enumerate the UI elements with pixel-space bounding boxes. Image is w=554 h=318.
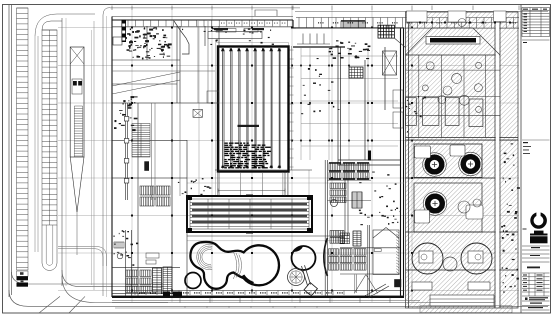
box with X room	[193, 109, 202, 117]
stair with X	[383, 51, 397, 75]
slide	[304, 283, 317, 296]
basement ramp shaft	[70, 47, 84, 157]
bench above pool	[208, 32, 262, 39]
NE waffle block	[378, 25, 394, 38]
plant bay walls	[406, 55, 501, 138]
lazy river arc wall	[324, 238, 328, 276]
filter room panels	[415, 145, 484, 223]
secondary floor lines east hall	[301, 48, 398, 160]
east wing partitions	[338, 47, 400, 165]
west corridor wall pair with column boxes	[124, 103, 126, 200]
column grid lines	[58, 10, 519, 302]
waffle block SC	[340, 233, 349, 244]
ramp door fixtures	[72, 79, 82, 94]
pool hall aisle lines	[199, 27, 309, 196]
small rooms east of stair	[393, 90, 403, 108]
top dimension ticks	[112, 6, 519, 11]
deck lines above leisure pool	[187, 240, 345, 242]
spa pool circle	[292, 246, 316, 270]
south window cell band	[112, 291, 404, 296]
rooftop dark bar	[426, 37, 480, 45]
lockers right of wall	[330, 231, 344, 237]
NW room boxes	[207, 91, 219, 103]
title block lower rows	[522, 246, 550, 310]
south hatched apron of plant	[420, 306, 512, 313]
competition pool basin	[218, 47, 289, 172]
firm logo laurel wreath emblem	[523, 212, 548, 244]
parking row west strip 1	[17, 8, 29, 270]
rooftop units white boxes	[407, 11, 507, 22]
locker banks NE	[329, 163, 341, 171]
filter room boxes	[414, 144, 482, 178]
locker banks mid	[330, 183, 346, 189]
bottom road double line and curb cells	[115, 307, 420, 309]
NW interior extra walls	[112, 21, 215, 103]
west perimeter road edges	[8, 5, 10, 297]
dark grid box gym	[349, 67, 363, 78]
dark crescent bottom of big circle	[243, 275, 254, 283]
mid-south wall pair	[324, 160, 326, 297]
lobby scatter	[182, 28, 274, 45]
south main wall thick	[112, 296, 404, 298]
SE entrance vestibule diagonals	[354, 275, 366, 294]
drop-off loop	[58, 247, 107, 267]
teaching pool basin	[187, 196, 312, 232]
filter tanks (donuts)	[427, 157, 442, 172]
column markers at grid intersections	[131, 27, 413, 292]
north sidewalk edge	[110, 7, 300, 9]
dimension line above lap pool	[218, 190, 285, 192]
north band rooms (west part)	[112, 17, 293, 27]
accessible stalls black	[17, 276, 29, 280]
SE entrance diagonals	[365, 284, 386, 296]
rooftop circles	[426, 62, 434, 70]
beach entry contour arcs	[197, 244, 242, 279]
deck lines below competition pool	[218, 172, 288, 196]
water wheel feature	[288, 269, 305, 286]
west staircase	[132, 124, 150, 158]
entry zigzag wall	[174, 21, 189, 54]
plant south steps	[412, 282, 494, 306]
west block partitions	[112, 26, 400, 297]
strip2 U-turn loop	[42, 225, 57, 271]
SW walls	[125, 230, 127, 297]
plant zone walls	[406, 12, 519, 308]
south-central locker rows	[340, 249, 352, 255]
strip2 approach arcs	[42, 21, 62, 30]
plant roof ridge	[406, 28, 433, 55]
pool centre label	[238, 125, 260, 127]
parking row west strip 2	[42, 30, 57, 225]
title block revision table	[522, 8, 550, 37]
dense equipment speckles	[126, 27, 172, 59]
pool annotation text blocks	[225, 143, 253, 169]
SW dense locker cluster	[126, 270, 138, 277]
gym north wall	[293, 46, 345, 48]
natatorium outer walls	[112, 17, 404, 298]
ramp diagonals hall	[112, 72, 180, 86]
ramp stair treads	[74, 106, 82, 157]
corner lane diagonals	[39, 296, 60, 313]
west mid wall lines	[151, 103, 153, 200]
SE big room with canopy	[373, 228, 399, 275]
south pavement lines	[112, 299, 420, 301]
SE room hatch column	[396, 231, 399, 274]
canopy top centre	[255, 10, 277, 16]
ramp V taper	[70, 157, 77, 212]
band dark comb mid	[341, 21, 365, 28]
white corridor strip	[496, 13, 500, 308]
leisure pool freeform basin	[190, 242, 279, 289]
surge tank circles	[412, 243, 443, 274]
SW locker / toilet combs	[140, 186, 154, 195]
west wall black segment	[122, 20, 127, 43]
roof line with column dots	[406, 22, 519, 24]
dimension chain right of pool	[290, 46, 294, 170]
diagonal to plant	[394, 38, 405, 47]
title block mid separators	[522, 39, 550, 41]
plant building hatched area	[406, 12, 519, 308]
lap pool corner blocks	[188, 197, 192, 200]
colonnade below band	[297, 34, 330, 45]
north band rooms (east part)	[296, 18, 519, 29]
SW small fixtures	[146, 253, 159, 258]
rooftop tanks	[406, 98, 483, 127]
south road curves	[9, 290, 548, 306]
toddler pool circle	[185, 273, 201, 289]
logo pedestal	[530, 234, 548, 244]
